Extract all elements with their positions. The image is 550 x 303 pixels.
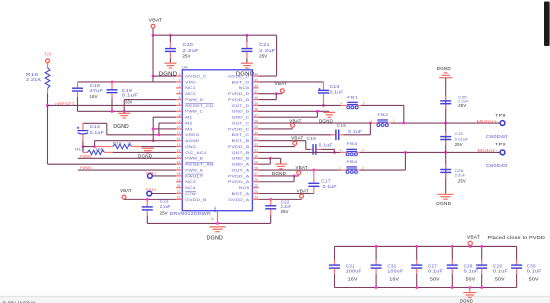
svg-text:PVDD_D: PVDD_D <box>228 92 250 96</box>
svg-text:C21: C21 <box>259 42 270 47</box>
svg-text:GVDD_B: GVDD_B <box>185 198 207 202</box>
wire PVDD_C pin 35 <box>259 128 293 130</box>
capacitor C19 0.1uF 50V <box>107 82 139 111</box>
svg-text:GND_B: GND_B <box>232 157 251 161</box>
test point TP11 (FAULT) <box>146 172 177 179</box>
wire VDD row to C18/C19 <box>78 81 154 84</box>
svg-text:0.1uF: 0.1uF <box>493 269 508 274</box>
svg-text:PWM_A: PWM_A <box>185 168 203 172</box>
svg-text:BST_A: BST_A <box>232 192 251 196</box>
pin 45 PAD stub <box>211 211 218 224</box>
svg-text:DGND: DGND <box>272 171 287 176</box>
svg-text:Placed close to PVDD: Placed close to PVDD <box>488 235 546 240</box>
pin 18 FAULT <box>176 172 203 178</box>
svg-text:50V: 50V <box>466 277 476 282</box>
svg-text:PWM_D: PWM_D <box>185 98 203 102</box>
capacitor C27 0.1uF 50V <box>411 245 443 289</box>
capacitor C18 47uF 16V <box>72 82 103 111</box>
svg-text:VBAT: VBAT <box>289 119 302 124</box>
pin 4 NC2 <box>176 90 196 96</box>
ground DGND (top right, inverted) <box>437 66 453 78</box>
wire AGND pin 12 to gnd net <box>95 141 177 147</box>
capacitor C25 2.2uF 25V <box>440 94 469 109</box>
pin 32 PVDD_B <box>228 143 258 149</box>
wire nRESET to pin 6 RESET_CD <box>48 104 177 106</box>
svg-text:2: 2 <box>362 148 364 152</box>
pin 11 VREG <box>176 131 200 137</box>
svg-text:PVDD_A: PVDD_A <box>228 180 250 184</box>
power symbol VBAT (PVDD_D) <box>275 81 288 94</box>
svg-text:12: 12 <box>177 137 181 141</box>
pin 30 GND_B <box>232 155 259 161</box>
pin 26 PVDD_A <box>228 178 258 184</box>
svg-text:0.1uF: 0.1uF <box>527 269 542 274</box>
svg-text:21: 21 <box>177 190 181 194</box>
svg-text:38: 38 <box>254 108 258 112</box>
svg-text:26: 26 <box>254 178 258 182</box>
pin 27 PVDD_A <box>228 172 258 178</box>
svg-text:2: 2 <box>363 101 365 105</box>
svg-text:45: 45 <box>211 217 215 221</box>
power symbol VBAT (PVDD_C) <box>289 119 302 129</box>
svg-text:2.2uF: 2.2uF <box>455 173 466 178</box>
wire pin 5 PWM_D down to ground row <box>124 100 176 112</box>
svg-text:25V: 25V <box>183 54 192 59</box>
wire bulk cap bank rails <box>335 246 517 287</box>
svg-text:FB4: FB4 <box>347 159 359 164</box>
svg-text:25V: 25V <box>259 54 268 59</box>
svg-text:PVDD_C: PVDD_C <box>228 127 250 131</box>
pin 29 GND_A <box>232 160 259 166</box>
ferrite bead FB2 <box>370 112 395 127</box>
label C60D40 (motor+) <box>486 134 508 139</box>
svg-text:34: 34 <box>254 131 258 135</box>
svg-text:PWM_B: PWM_B <box>185 157 203 161</box>
pin 12 AGND <box>176 137 200 143</box>
capacitor C17 0.1uF (BST_A) <box>259 170 337 193</box>
node junction VBAT/C20 <box>152 34 249 37</box>
resistor R18 2.21K <box>26 68 50 106</box>
svg-text:0.1uF: 0.1uF <box>90 130 105 135</box>
svg-text:TP8: TP8 <box>495 113 506 118</box>
svg-text:VBAT: VBAT <box>275 81 288 86</box>
svg-text:VBAT: VBAT <box>120 188 132 193</box>
pin 21 OTW <box>176 190 197 196</box>
capacitor C10 0.01uF 25V <box>440 131 468 147</box>
svg-text:RESET_CD: RESET_CD <box>185 104 214 108</box>
svg-text:0.01uF: 0.01uF <box>455 136 469 141</box>
pin 31 OUT_B <box>232 149 259 155</box>
svg-text:VBAT: VBAT <box>149 18 163 23</box>
wire nRESET rail down to pin 16 RESET_AB <box>48 105 177 164</box>
capacitor C30 0.1uF 50V <box>511 246 542 287</box>
svg-text:47uF: 47uF <box>90 88 104 93</box>
svg-text:PWM1: PWM1 <box>80 154 92 158</box>
svg-text:Motor-: Motor- <box>477 148 498 153</box>
svg-text:C13: C13 <box>330 84 341 89</box>
svg-text:GVDD_D: GVDD_D <box>228 75 250 79</box>
pin 1 GVDD_C <box>176 72 207 78</box>
svg-text:50V: 50V <box>529 277 539 282</box>
pin 41 PVDD_D <box>228 90 258 96</box>
svg-text:36: 36 <box>254 119 258 123</box>
wire BST_B row to C16 <box>259 141 311 150</box>
svg-text:AGND: AGND <box>185 139 200 143</box>
wire OUT_B row to FB3 <box>259 151 345 153</box>
svg-text:BST_D: BST_D <box>232 80 250 84</box>
wire right rail to pin 44 <box>259 35 277 76</box>
ground DGND under C18/C19 row <box>113 113 130 130</box>
wire GVDD_A pin 23 <box>259 198 302 201</box>
svg-text:1: 1 <box>179 72 181 76</box>
svg-text:25V: 25V <box>281 209 289 214</box>
svg-text:R17: R17 <box>75 147 84 152</box>
pin 14 OC_ADJ <box>176 149 207 155</box>
ground DGND (GND_C/D) <box>319 112 335 123</box>
pin 15 PWM_B <box>176 155 204 161</box>
svg-text:32: 32 <box>254 143 258 147</box>
power symbol VBAT (GVDD_A) <box>297 188 310 199</box>
svg-text:PVDD_A: PVDD_A <box>228 174 250 178</box>
wire VBAT top rail horizontal <box>153 34 277 36</box>
pin 17 PWM_A <box>176 166 204 172</box>
capacitor C20 2.2uF 25V <box>165 35 199 63</box>
capacitor C21 2.2uF 25V <box>241 35 275 63</box>
bottom left text fragment <box>2 300 35 303</box>
wire PWM_B pin 15 with net label <box>78 154 176 158</box>
svg-text:40: 40 <box>254 96 258 100</box>
svg-text:6: 6 <box>179 102 181 106</box>
wire OUT_C row to FB2 <box>259 122 378 125</box>
svg-text:NC6: NC6 <box>239 86 250 90</box>
svg-text:M2: M2 <box>185 121 192 125</box>
pin 6 RESET_CD <box>176 102 214 108</box>
svg-text:25V: 25V <box>458 103 466 108</box>
svg-text:C23: C23 <box>160 199 170 204</box>
svg-text:7: 7 <box>179 108 181 112</box>
svg-text:R19: R19 <box>113 140 122 145</box>
label C60D40 (motor-) <box>486 163 508 168</box>
pin 5 PWM_D <box>176 96 203 102</box>
svg-text:NC1: NC1 <box>185 86 196 90</box>
pin 16 RESET_AB <box>176 160 214 166</box>
svg-text:GND: GND <box>185 145 196 149</box>
svg-text:17: 17 <box>177 166 181 170</box>
power symbol VBAT (top) <box>149 18 163 36</box>
wire left rail VBAT to pins 1,2 <box>152 35 177 82</box>
svg-text:28: 28 <box>254 166 258 170</box>
ground DGND (GND_A/B) <box>272 164 287 176</box>
svg-text:OTW: OTW <box>185 192 196 196</box>
svg-text:27: 27 <box>254 172 258 176</box>
svg-text:DGND: DGND <box>207 235 224 241</box>
wire FB1 out to motor+ node <box>361 105 404 123</box>
svg-text:GVDD_A: GVDD_A <box>228 198 250 202</box>
resistor R19 1K (to DGND) <box>95 140 141 148</box>
svg-text:2.21K: 2.21K <box>26 77 41 82</box>
svg-text:22: 22 <box>177 196 181 200</box>
svg-text:0.1uF: 0.1uF <box>330 89 344 94</box>
svg-text:DRV8412DDWR: DRV8412DDWR <box>170 211 212 216</box>
svg-text:NC5: NC5 <box>239 186 250 190</box>
svg-text:16V: 16V <box>348 277 358 282</box>
capacitor C22 2.2uF 25V (GVDD_A) <box>265 199 291 223</box>
wire gnd net row 13 <box>83 146 176 148</box>
svg-text:100uF: 100uF <box>346 269 362 274</box>
svg-text:PVDD_D: PVDD_D <box>228 98 250 102</box>
pin 28 OUT_A <box>232 166 259 172</box>
svg-text:4: 4 <box>179 90 181 94</box>
wire BST_C row to C15 <box>259 134 332 136</box>
wire VBAT to pin 22 GVDD_B <box>124 198 176 201</box>
ground DGND (bottom right) <box>436 194 453 207</box>
svg-text:TP12: TP12 <box>146 188 157 192</box>
svg-text:42: 42 <box>254 84 258 88</box>
wire GND_B/GND_A to DGND <box>259 157 281 164</box>
wire bottom ground run <box>147 222 270 225</box>
ferrite bead FB4 <box>340 159 365 174</box>
svg-text:C60D40: C60D40 <box>486 134 508 139</box>
wire cap ground row to pin 7 PWM_C <box>78 110 177 113</box>
pin 8 M1 <box>176 113 192 119</box>
svg-text:VREG: VREG <box>185 133 199 137</box>
svg-text:BST_B: BST_B <box>232 139 251 143</box>
pin 34 BST_C <box>232 131 259 137</box>
pin 25 NC5 <box>239 184 259 190</box>
pin 38 GND_D <box>232 108 259 114</box>
svg-text:0.1uF: 0.1uF <box>428 269 443 274</box>
svg-text:C60D40: C60D40 <box>486 163 508 168</box>
svg-text:44: 44 <box>254 72 258 76</box>
svg-text:20: 20 <box>177 184 181 188</box>
svg-text:23: 23 <box>254 196 258 200</box>
svg-text:C16: C16 <box>307 136 317 141</box>
window edge line bottom <box>0 296 550 303</box>
power symbol 3V3 <box>44 51 51 67</box>
pin 13 GND <box>176 143 196 149</box>
net label nRESET <box>55 101 75 106</box>
wire motor- line to TP9 <box>360 151 500 154</box>
pin 19 NC3 <box>176 178 196 184</box>
svg-text:U4: U4 <box>182 65 188 70</box>
pin 43 BST_D <box>232 78 259 84</box>
svg-text:VDD: VDD <box>185 80 196 84</box>
svg-text:TP9: TP9 <box>495 142 506 147</box>
svg-text:GND_A: GND_A <box>232 163 251 167</box>
svg-text:DGND: DGND <box>437 66 451 71</box>
pin 42 NC6 <box>239 84 259 90</box>
ground DGND (bulk bank) <box>460 286 477 303</box>
svg-text:2: 2 <box>179 78 181 82</box>
svg-text:2.2uF: 2.2uF <box>259 48 276 53</box>
svg-text:0.1uF: 0.1uF <box>348 129 362 134</box>
pin 20 NC4 <box>176 184 196 190</box>
svg-text:Motor+: Motor+ <box>477 119 499 124</box>
pin 33 BST_B <box>232 137 259 143</box>
resistor R17 10K (OC_ADJ) <box>75 146 176 154</box>
svg-text:10: 10 <box>177 125 181 129</box>
pin 40 PVDD_D <box>228 96 258 102</box>
svg-text:37: 37 <box>254 113 258 117</box>
pin 7 PWM_C <box>176 108 203 114</box>
svg-text:2.2uF: 2.2uF <box>160 204 171 209</box>
svg-text:18: 18 <box>177 172 181 176</box>
pin 3 NC1 <box>176 84 196 90</box>
wire motor+ line to TP8 <box>391 122 500 125</box>
pin 24 BST_A <box>232 190 259 196</box>
svg-text:OUT_D: OUT_D <box>232 104 250 108</box>
svg-text:0.1uF: 0.1uF <box>464 269 479 274</box>
svg-text:5: 5 <box>179 96 181 100</box>
svg-text:OUT_B: OUT_B <box>232 151 251 155</box>
svg-text:NC3: NC3 <box>185 180 196 184</box>
svg-text:NC4: NC4 <box>185 186 196 190</box>
svg-text:33: 33 <box>254 137 258 141</box>
svg-text:RESET_AB: RESET_AB <box>185 163 214 167</box>
svg-text:C20: C20 <box>183 42 194 47</box>
svg-text:OUT_C: OUT_C <box>232 121 250 125</box>
svg-text:PAD: PAD <box>213 207 217 213</box>
node nRESET junction <box>46 104 49 107</box>
svg-text:FB3: FB3 <box>347 141 358 146</box>
node gnd net junctions <box>82 145 96 148</box>
svg-text:31: 31 <box>254 149 258 153</box>
svg-text:1K: 1K <box>127 140 132 145</box>
svg-text:39: 39 <box>254 102 258 106</box>
svg-text:VBAT: VBAT <box>291 136 304 141</box>
test point TP8 Motor+ <box>477 113 507 126</box>
svg-text:50V: 50V <box>495 277 505 282</box>
svg-text:DGND: DGND <box>113 124 129 130</box>
svg-text:0.1uF: 0.1uF <box>319 142 333 147</box>
pin 23 GVDD_A <box>228 196 258 202</box>
pin 35 PVDD_C <box>228 125 258 131</box>
capacitor C16 0.1uF (BST_B) <box>307 136 336 155</box>
capacitor C26 2.2uF 25V <box>440 164 466 183</box>
svg-text:DGND: DGND <box>159 71 178 77</box>
svg-text:C14: C14 <box>90 124 101 129</box>
ground DGND on row 13 <box>138 148 154 159</box>
IC U4 DRV8412DDWR motor driver <box>170 65 253 216</box>
wire M2/VREG tie rail <box>158 123 177 136</box>
capacitor C23 2.2uF 25V (GVDD_B) <box>142 199 171 224</box>
wire M1/M3 tie rail <box>152 117 176 142</box>
pin 2 VDD <box>176 78 196 84</box>
svg-text:16V: 16V <box>90 94 99 99</box>
ferrite bead FB1 <box>340 94 365 109</box>
capacitor C31 100uF 16V <box>329 246 362 287</box>
pin 39 OUT_D <box>232 102 259 108</box>
svg-text:25V: 25V <box>160 211 168 216</box>
wire right filter rail <box>445 78 447 194</box>
svg-text:VBAT: VBAT <box>467 234 480 239</box>
wire GND_D/GND_C to DGND <box>259 110 330 117</box>
power symbol VBAT (GVDD_B) <box>120 188 132 199</box>
wire FB4 out up to motor- node <box>360 152 405 170</box>
svg-text:10K: 10K <box>95 146 105 151</box>
svg-text:19: 19 <box>177 178 181 182</box>
wire PVDD_D pins 41/40 to VBAT <box>259 92 283 99</box>
wire OUT_D row to FB1 <box>259 104 342 106</box>
svg-text:BST_C: BST_C <box>232 133 250 137</box>
svg-text:16: 16 <box>177 160 181 164</box>
ground DGND under C20 <box>159 63 178 77</box>
svg-text:41: 41 <box>254 90 258 94</box>
svg-text:25: 25 <box>254 184 258 188</box>
svg-text:M3: M3 <box>185 127 192 131</box>
svg-text:1: 1 <box>340 148 342 152</box>
svg-text:0.1uF: 0.1uF <box>323 184 337 189</box>
svg-text:3V3: 3V3 <box>44 51 51 56</box>
svg-text:OC_ADJ: OC_ADJ <box>185 151 206 155</box>
pin 37 GND_C <box>232 113 259 119</box>
svg-text:GND_D: GND_D <box>232 110 250 114</box>
svg-text:TP11: TP11 <box>146 172 157 176</box>
svg-text:GND_C: GND_C <box>232 116 250 120</box>
svg-text:29: 29 <box>254 160 258 164</box>
pin 22 GVDD_B <box>176 196 207 202</box>
capacitor C32 100uF 16V <box>371 245 404 289</box>
svg-text:35: 35 <box>254 125 258 129</box>
svg-text:M1: M1 <box>185 116 192 120</box>
svg-text:1: 1 <box>340 101 342 105</box>
svg-text:8: 8 <box>179 113 181 117</box>
pin 36 OUT_C <box>232 119 259 125</box>
pin 10 M3 <box>176 125 192 131</box>
svg-text:50V: 50V <box>430 277 440 282</box>
svg-text:GVDD_C: GVDD_C <box>185 75 207 79</box>
pin 44 GVDD_D <box>228 72 258 78</box>
svg-text:FAULT: FAULT <box>185 174 203 178</box>
pin 9 M2 <box>176 119 192 125</box>
svg-text:100uF: 100uF <box>387 269 403 274</box>
svg-text:FB2: FB2 <box>377 112 388 117</box>
svg-text:25V: 25V <box>458 178 466 183</box>
svg-text:9: 9 <box>179 119 181 123</box>
power symbol VBAT (bulk bank) <box>467 234 480 247</box>
power symbol VBAT (PVDD_A) <box>296 165 309 176</box>
svg-text:0.1uF: 0.1uF <box>122 93 139 98</box>
svg-text:14: 14 <box>177 149 181 153</box>
wire PVDD_B pin 32 <box>259 146 295 148</box>
svg-text:VBAT: VBAT <box>296 165 309 170</box>
svg-text:C15: C15 <box>337 123 347 128</box>
svg-text:FB1: FB1 <box>347 94 358 99</box>
svg-text:PWM2: PWM2 <box>80 166 92 170</box>
svg-text:25V: 25V <box>455 142 463 147</box>
capacitor C28 0.1uF 50V <box>447 245 479 289</box>
ferrite bead FB3 <box>340 141 365 156</box>
svg-text:PWM_C: PWM_C <box>185 110 203 114</box>
svg-text:PVDD_B: PVDD_B <box>228 145 250 149</box>
svg-text:3: 3 <box>179 84 181 88</box>
ground DGND under C21 <box>236 63 255 77</box>
svg-text:NC2: NC2 <box>185 92 196 96</box>
note Placed close to PVDD <box>488 235 546 240</box>
svg-text:1: 1 <box>340 166 342 170</box>
ground DGND bottom center <box>207 227 226 242</box>
svg-text:DGND: DGND <box>460 299 473 303</box>
svg-text:16V: 16V <box>389 277 399 282</box>
test point TP9 Motor- <box>477 142 506 155</box>
wire OUT_A row to FB4 <box>259 169 346 172</box>
black bar top right <box>544 2 550 47</box>
test point TP12 (OTW) <box>146 188 177 196</box>
svg-text:1: 1 <box>370 119 372 123</box>
svg-text:2: 2 <box>393 119 395 123</box>
capacitor C29 0.1uF 50V <box>476 245 508 289</box>
power symbol VBAT (PVDD_B) <box>291 136 304 147</box>
